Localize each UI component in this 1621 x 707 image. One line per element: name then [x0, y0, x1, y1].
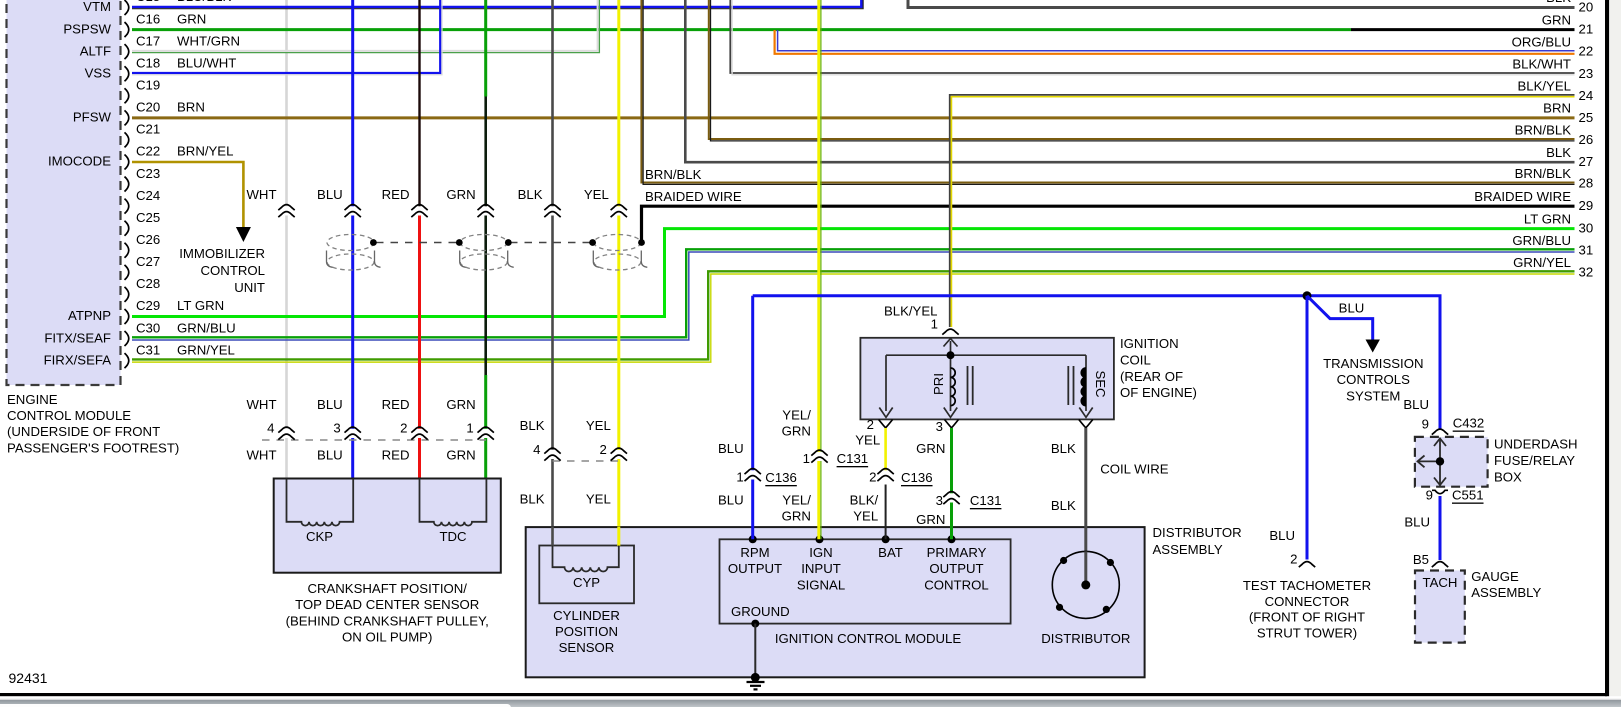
svg-text:PASSENGER'S FOOTREST): PASSENGER'S FOOTREST) [7, 440, 179, 455]
svg-text:C22: C22 [136, 144, 160, 159]
svg-text:TOP DEAD CENTER SENSOR: TOP DEAD CENTER SENSOR [295, 597, 479, 612]
svg-text:GRN: GRN [782, 424, 811, 439]
svg-text:IGNITION: IGNITION [1120, 336, 1179, 351]
svg-text:CONNECTOR: CONNECTOR [1265, 594, 1350, 609]
CKP/TDC connector arc pairs [278, 427, 494, 439]
svg-text:C131: C131 [970, 493, 1002, 508]
svg-text:C18: C18 [136, 55, 160, 70]
svg-text:OUTPUT: OUTPUT [728, 561, 782, 576]
svg-text:BLU: BLU [1339, 301, 1365, 316]
svg-text:RED: RED [382, 448, 410, 463]
vertical wire GRN to TDC (dark middle) [484, 0, 487, 97]
wire C16 GRN (row 21) [132, 28, 1351, 31]
svg-text:23: 23 [1579, 66, 1594, 81]
svg-text:YEL: YEL [853, 509, 878, 524]
wire BLU from C551 to gauge assembly [1439, 496, 1442, 560]
test tachometer connector arc [1299, 562, 1315, 567]
svg-text:GRN: GRN [446, 187, 475, 202]
coil core lines [968, 366, 1074, 405]
svg-text:LT GRN: LT GRN [177, 298, 224, 313]
svg-text:2: 2 [1290, 552, 1297, 567]
svg-text:GRN: GRN [446, 448, 475, 463]
connector C432 arc [1432, 429, 1448, 434]
branch to transmission controls system [1307, 296, 1373, 341]
gauge assembly TACH box [1415, 571, 1465, 643]
svg-text:FIRX/SEFA: FIRX/SEFA [44, 352, 112, 367]
shield cylinder 2 (GRN wire) [460, 235, 507, 271]
svg-text:YEL/: YEL/ [782, 493, 811, 508]
svg-text:GRN/BLU: GRN/BLU [1512, 233, 1571, 248]
svg-text:GRN/YEL: GRN/YEL [1513, 255, 1571, 270]
CYP connector arc pairs [544, 448, 627, 460]
svg-text:C15: C15 [136, 0, 160, 4]
wire row 23 BLK/WHT from top [730, 0, 1574, 73]
window bottom border line [0, 693, 1607, 696]
svg-text:C19: C19 [136, 77, 160, 92]
arrow to immobilizer control unit [236, 227, 251, 242]
distributor contact dots [1060, 557, 1067, 564]
wire C18 BLU/WHT to top edge [132, 0, 440, 73]
svg-text:YEL/: YEL/ [782, 408, 811, 423]
wire row 27 BLK from top [685, 0, 1574, 162]
svg-text:3: 3 [333, 421, 340, 436]
ground symbol [747, 682, 765, 689]
svg-text:BLK: BLK [1546, 0, 1571, 5]
svg-text:2: 2 [869, 470, 876, 485]
svg-text:BLK: BLK [520, 492, 545, 507]
svg-text:C21: C21 [136, 122, 160, 137]
svg-text:TRANSMISSION: TRANSMISSION [1323, 356, 1423, 371]
svg-text:BLU/BLK: BLU/BLK [177, 0, 231, 4]
svg-text:ON OIL PUMP): ON OIL PUMP) [342, 629, 432, 644]
wire C17 WHT/GRN to top edge [132, 0, 598, 51]
label IMMOBILIZER CONTROL UNIT [179, 246, 265, 295]
wire YEL from coil pin 2 to C136 [884, 428, 887, 471]
svg-text:UNDERDASH: UNDERDASH [1494, 437, 1578, 452]
wire BLK into CYP box [551, 527, 554, 547]
CKP/TDC connector dashed line [262, 439, 486, 441]
TDC winding pocket [420, 479, 487, 526]
svg-text:C29: C29 [136, 298, 160, 313]
shield junction dots [370, 239, 377, 246]
svg-text:3: 3 [936, 493, 943, 508]
vertical wire BLK to CYP [551, 0, 554, 546]
svg-text:WHT: WHT [246, 448, 276, 463]
svg-text:BRN: BRN [1543, 101, 1571, 116]
wire row 21 black end segment [1351, 28, 1575, 31]
secondary winding SEC [1081, 368, 1086, 406]
svg-text:32: 32 [1579, 265, 1594, 280]
svg-text:21: 21 [1579, 22, 1594, 37]
wire YEL into CYP box [617, 527, 620, 547]
fuse box internal wiring [1418, 438, 1447, 486]
svg-text:TEST TACHOMETER: TEST TACHOMETER [1243, 578, 1371, 593]
shield dashed link line [376, 242, 458, 244]
svg-text:(FRONT OF RIGHT: (FRONT OF RIGHT [1249, 610, 1365, 625]
svg-text:GROUND: GROUND [731, 604, 790, 619]
ignition coil box [860, 338, 1114, 420]
ECM connector pin arcs C15-C31 [125, 0, 129, 368]
svg-text:BLU: BLU [718, 493, 744, 508]
svg-text:26: 26 [1579, 132, 1594, 147]
svg-text:BLK: BLK [1051, 498, 1076, 513]
wire row 20 BLK from top [908, 0, 1575, 8]
shield cylinder 1 (BLU wire) [327, 235, 374, 271]
wire BLU to test tachometer connector [1306, 296, 1309, 560]
svg-text:(BEHIND CRANKSHAFT PULLEY,: (BEHIND CRANKSHAFT PULLEY, [286, 613, 489, 628]
svg-text:FUSE/RELAY: FUSE/RELAY [1494, 453, 1575, 468]
ICM pin node dots [749, 535, 757, 543]
svg-text:BLK/YEL: BLK/YEL [884, 304, 938, 319]
svg-text:1: 1 [466, 421, 473, 436]
svg-text:BRN/BLK: BRN/BLK [645, 167, 702, 182]
svg-text:BLU: BLU [1404, 515, 1430, 530]
svg-text:1: 1 [931, 317, 938, 332]
svg-text:C31: C31 [136, 342, 160, 357]
svg-text:YEL: YEL [586, 492, 611, 507]
bottom scrollbar [0, 699, 1621, 700]
svg-text:ASSEMBLY: ASSEMBLY [1153, 542, 1223, 557]
wire row 22 ORG/BLU from top [778, 30, 1575, 51]
svg-text:WHT: WHT [246, 397, 276, 412]
svg-text:SIGNAL: SIGNAL [797, 577, 845, 592]
svg-text:20: 20 [1579, 0, 1594, 15]
wire BLU from RPM output to blue bus [751, 296, 754, 540]
wire GRN from coil pin 3 to primary output control [950, 428, 953, 539]
svg-text:ORG/BLU: ORG/BLU [1512, 34, 1571, 49]
svg-text:BRN: BRN [177, 100, 205, 115]
svg-text:9: 9 [1426, 488, 1433, 503]
svg-text:INPUT: INPUT [801, 561, 841, 576]
svg-text:COIL: COIL [1120, 352, 1151, 367]
coil wire BLK to distributor [1084, 428, 1087, 585]
distributor assembly box [526, 527, 1145, 677]
window right border and scrollbar [1605, 0, 1609, 696]
svg-text:GRN/BLU: GRN/BLU [177, 320, 236, 335]
fuse box junction dot [1436, 457, 1444, 465]
svg-text:C16: C16 [136, 11, 160, 26]
svg-text:YEL: YEL [586, 418, 611, 433]
svg-text:ENGINE: ENGINE [7, 392, 58, 407]
wire C29 LT GRN (row 30) [132, 229, 1575, 317]
svg-text:PRI: PRI [931, 373, 946, 395]
svg-text:RED: RED [382, 187, 410, 202]
svg-text:CYLINDER: CYLINDER [553, 608, 620, 623]
svg-text:LT GRN: LT GRN [1524, 211, 1571, 226]
svg-text:YEL: YEL [855, 433, 880, 448]
svg-text:ATPNP: ATPNP [68, 308, 111, 323]
svg-text:ASSEMBLY: ASSEMBLY [1471, 585, 1541, 600]
svg-text:BRN/BLK: BRN/BLK [1515, 123, 1572, 138]
svg-text:GRN/YEL: GRN/YEL [177, 342, 235, 357]
svg-text:BAT: BAT [878, 545, 903, 560]
svg-text:BLU: BLU [317, 397, 343, 412]
svg-text:C136: C136 [765, 470, 797, 485]
svg-text:DISTRIBUTOR: DISTRIBUTOR [1153, 525, 1242, 540]
vertical wire YEL to CYP [617, 0, 620, 546]
caption TEST TACHOMETER CONNECTOR [1243, 578, 1371, 640]
svg-text:SEC: SEC [1093, 370, 1108, 398]
coil pin 1 connector arc [942, 329, 958, 334]
wire YEL/GRN to IGN input [817, 0, 820, 539]
distributor circle [1052, 551, 1119, 618]
svg-text:25: 25 [1579, 110, 1594, 125]
svg-text:BRAIDED WIRE: BRAIDED WIRE [1474, 189, 1571, 204]
caption IGNITION COIL (REAR OF OF ENGINE) [1120, 336, 1197, 400]
distributor center dot [1081, 580, 1090, 589]
svg-text:C30: C30 [136, 320, 160, 335]
svg-text:PRIMARY: PRIMARY [927, 545, 987, 560]
wire C31 GRN/YEL (row 32) [132, 271, 1575, 359]
svg-text:CYP: CYP [573, 575, 600, 590]
svg-text:4: 4 [533, 442, 540, 457]
blue bus RPM output to underdash fuse box [753, 296, 1440, 429]
svg-text:C20: C20 [136, 100, 160, 115]
svg-text:IGN: IGN [809, 545, 832, 560]
underdash fuse/relay box [1415, 437, 1488, 487]
svg-text:4: 4 [267, 421, 274, 436]
svg-text:FITX/SEAF: FITX/SEAF [44, 330, 111, 345]
svg-text:TACH: TACH [1423, 575, 1458, 590]
svg-text:C23: C23 [136, 166, 160, 181]
svg-text:IMMOBILIZER: IMMOBILIZER [179, 246, 265, 261]
svg-text:GRN: GRN [177, 11, 206, 26]
svg-text:BLU: BLU [718, 441, 744, 456]
svg-text:CRANKSHAFT POSITION/: CRANKSHAFT POSITION/ [307, 581, 467, 596]
wire C22 BRN/YEL to immobilizer [132, 162, 243, 228]
svg-text:GRN: GRN [1542, 12, 1571, 27]
svg-text:C24: C24 [136, 188, 160, 203]
svg-text:C17: C17 [136, 33, 160, 48]
ground wire from ICM [754, 624, 756, 679]
svg-text:BLU: BLU [1269, 528, 1295, 543]
shield cylinder 3 (YEL wire) [594, 235, 641, 271]
svg-text:POSITION: POSITION [555, 624, 618, 639]
svg-text:1: 1 [736, 470, 743, 485]
svg-text:GAUGE: GAUGE [1471, 569, 1519, 584]
svg-text:2: 2 [867, 417, 874, 432]
ignition control module box [720, 539, 1011, 623]
svg-text:C136: C136 [901, 470, 933, 485]
svg-text:STRUT TOWER): STRUT TOWER) [1257, 626, 1357, 641]
svg-text:BLK/: BLK/ [850, 493, 879, 508]
svg-text:(UNDERSIDE OF FRONT: (UNDERSIDE OF FRONT [7, 424, 160, 439]
coil secondary output connector [1079, 420, 1093, 428]
svg-text:RED: RED [382, 397, 410, 412]
svg-text:2: 2 [599, 442, 606, 457]
coil wire inside distributor [1084, 551, 1087, 585]
svg-text:GRN: GRN [782, 509, 811, 524]
caption UNDERDASH FUSE/RELAY BOX [1494, 437, 1578, 485]
junction dot on blue bus [1303, 291, 1312, 300]
svg-text:2: 2 [400, 421, 407, 436]
svg-text:BLK: BLK [1051, 441, 1076, 456]
CYP sensor inner box [539, 546, 634, 604]
arrow to transmission controls system [1366, 340, 1380, 353]
svg-text:PFSW: PFSW [73, 110, 112, 125]
svg-text:GRN: GRN [916, 512, 945, 527]
svg-text:1: 1 [803, 451, 810, 466]
svg-text:OF ENGINE): OF ENGINE) [1120, 385, 1197, 400]
wire C30 GRN/BLU (row 31) [132, 249, 1575, 337]
vertical wire RED to TDC (dark upper) [418, 0, 420, 213]
coil junction dot [947, 351, 955, 359]
svg-text:TDC: TDC [439, 529, 467, 544]
svg-text:BLK/YEL: BLK/YEL [1517, 79, 1571, 94]
svg-text:C551: C551 [1452, 488, 1484, 503]
svg-text:UNIT: UNIT [234, 280, 265, 295]
svg-text:(REAR OF: (REAR OF [1120, 369, 1183, 384]
svg-text:YEL: YEL [584, 187, 609, 202]
connector C551 arc [1432, 490, 1448, 493]
svg-text:C131: C131 [837, 451, 869, 466]
svg-text:C26: C26 [136, 232, 160, 247]
svg-text:27: 27 [1579, 154, 1594, 169]
vertical wire BLU to CKP [351, 0, 354, 479]
svg-text:92431: 92431 [9, 670, 48, 686]
svg-text:28: 28 [1579, 175, 1594, 190]
wire row 28 BRN/BLK from top [641, 0, 1574, 183]
primary winding PRI [951, 368, 956, 406]
svg-text:31: 31 [1579, 243, 1594, 258]
svg-text:SENSOR: SENSOR [559, 640, 615, 655]
vertical wire WHT to CKP [285, 0, 288, 479]
CYP connector dashed line [553, 460, 619, 462]
svg-text:B5: B5 [1413, 552, 1429, 567]
svg-text:OUTPUT: OUTPUT [929, 561, 983, 576]
CKP winding pocket [287, 479, 354, 526]
svg-text:BOX: BOX [1494, 469, 1522, 484]
crankshaft position / TDC sensor box [274, 479, 501, 573]
svg-text:CKP: CKP [306, 529, 333, 544]
svg-text:CONTROL: CONTROL [201, 263, 265, 278]
svg-text:22: 22 [1579, 44, 1594, 59]
wire C15 BLU/BLK to top edge [132, 0, 861, 7]
svg-text:VSS: VSS [85, 65, 112, 80]
svg-text:RPM: RPM [740, 545, 769, 560]
caption TRANSMISSION CONTROLS SYSTEM [1323, 356, 1423, 403]
ICM ground node dot [751, 620, 759, 628]
svg-text:BRN/YEL: BRN/YEL [177, 144, 233, 159]
splice arc pairs on sensor verticals [278, 205, 627, 217]
coil internal wiring [879, 339, 1092, 418]
svg-text:SYSTEM: SYSTEM [1346, 388, 1400, 403]
svg-text:9: 9 [1422, 417, 1429, 432]
ECM caption: ENGINE CONTROL MODULE (UNDERSIDE OF FRONT PASSENGER'S FOOTREST) [7, 392, 179, 455]
svg-text:IMOCODE: IMOCODE [48, 154, 111, 169]
wire BLK from C136 to BAT [885, 485, 887, 540]
svg-text:BLK: BLK [518, 187, 543, 202]
svg-text:BLK: BLK [1546, 145, 1571, 160]
svg-text:BRN/BLK: BRN/BLK [1515, 166, 1572, 181]
CYP winding pocket [553, 546, 619, 572]
svg-text:C432: C432 [1453, 416, 1485, 431]
svg-text:VTM: VTM [83, 0, 111, 14]
svg-text:WHT: WHT [246, 187, 276, 202]
svg-text:PSPSW: PSPSW [63, 21, 111, 36]
svg-text:BLU/WHT: BLU/WHT [177, 55, 236, 70]
wire C20 BRN (row 25) [132, 116, 1575, 119]
caption CRANKSHAFT POSITION / TOP DEAD CENTER SENSOR [286, 581, 489, 644]
svg-text:CONTROLS: CONTROLS [1337, 372, 1410, 387]
svg-text:GRN: GRN [916, 441, 945, 456]
gauge assembly connector arc [1432, 562, 1448, 567]
svg-text:C28: C28 [136, 276, 160, 291]
svg-text:3: 3 [936, 419, 943, 434]
svg-text:BRAIDED WIRE: BRAIDED WIRE [645, 189, 742, 204]
svg-text:DISTRIBUTOR: DISTRIBUTOR [1041, 631, 1130, 646]
svg-text:29: 29 [1579, 198, 1594, 213]
svg-text:CONTROL: CONTROL [924, 577, 988, 592]
svg-text:BLU: BLU [317, 448, 343, 463]
svg-text:C25: C25 [136, 210, 160, 225]
svg-text:BLK/WHT: BLK/WHT [1512, 57, 1571, 72]
ground junction dot on box edge [751, 673, 760, 682]
svg-text:IGNITION CONTROL MODULE: IGNITION CONTROL MODULE [775, 631, 962, 646]
ICM pin labels [728, 545, 989, 619]
svg-text:BLU: BLU [317, 187, 343, 202]
svg-text:WHT/GRN: WHT/GRN [177, 33, 240, 48]
wire row 26 BRN/BLK from top [709, 0, 1575, 139]
svg-text:24: 24 [1579, 88, 1594, 103]
svg-text:BLU: BLU [1403, 397, 1429, 412]
wire row 24 BLK/YEL from ignition coil pin 1 [950, 95, 1575, 327]
engine control module block (ECM) [7, 0, 121, 385]
caption CYLINDER POSITION SENSOR [553, 608, 620, 655]
svg-text:BLK: BLK [520, 418, 545, 433]
svg-text:ALTF: ALTF [80, 43, 111, 58]
svg-text:GRN: GRN [446, 397, 475, 412]
svg-text:COIL WIRE: COIL WIRE [1100, 462, 1169, 477]
svg-text:30: 30 [1579, 221, 1594, 236]
svg-text:C27: C27 [136, 254, 160, 269]
wire row 29 BRAIDED WIRE from shield junction [642, 206, 1575, 242]
svg-text:CONTROL MODULE: CONTROL MODULE [7, 408, 131, 423]
